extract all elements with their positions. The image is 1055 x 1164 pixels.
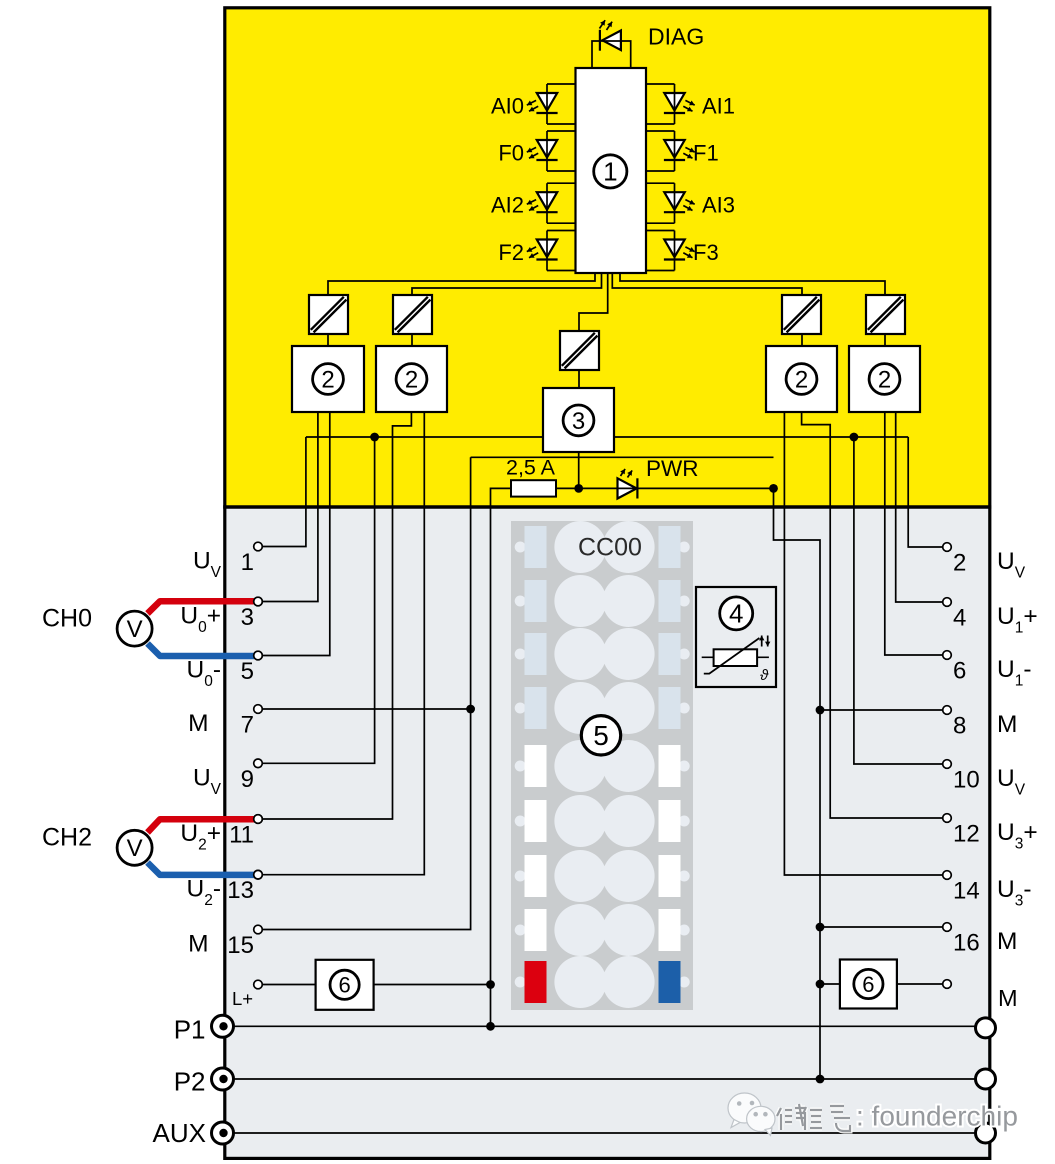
svg-text:UV: UV: [193, 764, 222, 798]
svg-text:M: M: [998, 985, 1018, 1011]
terminal 12 (right): [943, 814, 952, 823]
CH2 blue wire to terminal 13: [148, 863, 255, 875]
CH0 blue wire to terminal 5: [148, 644, 255, 657]
thermistor symbol in box 4: [702, 656, 714, 658]
rail right of box3 (y=437): [614, 436, 908, 438]
junction dot rail/terminal 9: [370, 433, 379, 442]
callout circle 1: [594, 155, 627, 188]
svg-text:UV: UV: [997, 765, 1026, 799]
wire terminal 8: [820, 709, 943, 711]
terminal 15 (left): [254, 925, 263, 934]
svg-text:13: 13: [227, 877, 254, 904]
svg-text:P2: P2: [174, 1067, 206, 1097]
rail P2: [225, 1078, 985, 1080]
svg-text:15: 15: [227, 932, 254, 959]
LED F1: [664, 140, 684, 158]
wire terminal 13 vertical: [262, 412, 424, 875]
rail above fuse (y=457.3): [471, 456, 774, 458]
terminal 11 circle: [254, 815, 263, 824]
terminal 10 (right): [943, 760, 952, 769]
wire fuse to PWR LED: [556, 487, 618, 489]
svg-text:U1+: U1+: [997, 603, 1038, 637]
P1 outfeed bump (right): [976, 1018, 996, 1038]
terminal 9 (left): [254, 759, 263, 768]
svg-text:2: 2: [953, 550, 966, 577]
svg-text:AI1: AI1: [702, 94, 735, 119]
svg-text:2: 2: [405, 367, 418, 394]
svg-text:CH2: CH2: [42, 824, 92, 852]
terminal 11 (left): [254, 815, 263, 824]
P2 outfeed bump (right): [976, 1069, 996, 1089]
svg-text:2: 2: [878, 367, 891, 394]
connector block callout circle 5: [581, 716, 620, 755]
wire terminal 1 vertical: [262, 437, 306, 547]
connector 5 contact pair row 5: [554, 740, 606, 792]
svg-text:M: M: [188, 710, 208, 737]
LED F3: [664, 240, 684, 258]
connector 5 contact pair row 1: [554, 521, 606, 573]
supply filter box 6 (right): [840, 960, 897, 1009]
svg-text:3: 3: [241, 604, 254, 631]
terminal 8 (right): [943, 706, 952, 715]
connector 5 contact pair row 9: [554, 956, 606, 1008]
svg-text:12: 12: [953, 821, 980, 848]
svg-text:8: 8: [953, 713, 966, 740]
wire box6 right to terminal M: [897, 983, 943, 985]
terminal 5 circle: [254, 651, 263, 660]
wire terminal 12 vertical with jog: [802, 412, 943, 818]
svg-text:6: 6: [953, 658, 966, 685]
svg-text:M: M: [997, 928, 1017, 955]
svg-text:L+: L+: [232, 988, 253, 1009]
AUX outfeed bump (right): [976, 1123, 996, 1143]
wire terminal 11 vertical with jog: [262, 412, 411, 819]
wire box1 to barrier sq3 (middle): [579, 273, 608, 331]
terminal L+: [262, 984, 315, 986]
svg-text:7: 7: [241, 712, 254, 739]
CH2 red wire to terminal 11: [148, 819, 255, 832]
terminal 6 (right): [943, 651, 952, 660]
svg-text:CC00: CC00: [578, 534, 642, 562]
svg-text:1: 1: [603, 157, 617, 187]
isolation barrier sq2: [393, 295, 432, 334]
voltmeter V CH0: [117, 611, 152, 646]
svg-text:UV: UV: [193, 548, 222, 582]
connector block 5 body (CC00 front connector): [511, 521, 693, 1010]
logic box 3: [543, 388, 614, 452]
svg-text:9: 9: [241, 766, 254, 793]
wire terminal 2 vertical: [908, 437, 943, 547]
wire terminal 10 vertical: [854, 437, 943, 764]
svg-text:F0: F0: [498, 141, 524, 166]
isolation barrier sq4: [782, 295, 821, 334]
svg-text:CH0: CH0: [42, 605, 92, 633]
wire sq3 to box3: [578, 370, 580, 388]
wire box1 to barrier sq2 (lower-left rail): [412, 273, 602, 295]
rail left of box3 (y=437): [306, 436, 543, 438]
terminal 13 circle: [254, 870, 263, 879]
svg-text:U2-: U2-: [187, 876, 222, 910]
LED PWR: [618, 478, 637, 498]
wire sq1 to box2a: [327, 334, 329, 346]
svg-text:14: 14: [953, 878, 980, 905]
wire terminal 5 vertical: [262, 412, 330, 656]
svg-text:2,5 A: 2,5 A: [506, 456, 556, 480]
svg-text:V: V: [127, 616, 143, 643]
wire box1 to barrier sq4 (lower-right rail): [612, 273, 802, 295]
svg-text:M: M: [188, 931, 208, 958]
svg-text:F1: F1: [693, 141, 719, 166]
svg-text:V: V: [127, 835, 143, 862]
watermark text: [777, 1104, 850, 1131]
svg-text:6: 6: [862, 972, 874, 997]
supply filter box 6 (left): [316, 960, 374, 1010]
terminal 3 (left): [254, 597, 263, 606]
svg-text:ϑ: ϑ: [760, 667, 769, 684]
AUX infeed bump: [212, 1122, 234, 1144]
LED AI2: [537, 192, 557, 210]
svg-text:AUX: AUX: [153, 1118, 206, 1148]
diagram border frame: [225, 8, 990, 1159]
junction dot terminal 8: [816, 706, 825, 715]
wire sq2 to box2b: [411, 334, 413, 346]
svg-text:M: M: [997, 711, 1017, 738]
svg-text:2: 2: [795, 367, 808, 394]
junction dot terminal 7 / M rail: [466, 705, 475, 714]
terminal 14 (right): [943, 871, 952, 880]
voltmeter V CH2: [117, 830, 152, 865]
P2 infeed bump: [212, 1068, 234, 1090]
wire box1 to barrier sq5 (upper-right rail): [620, 273, 885, 295]
terminal 3 circle: [254, 597, 263, 606]
wire sq4 to box2c: [801, 334, 803, 346]
svg-text:3: 3: [572, 408, 585, 435]
watermark wechat icon: [728, 1093, 775, 1136]
terminal M (right bottom): [820, 983, 840, 985]
rail AUX: [225, 1132, 985, 1134]
terminal 16 (right): [943, 923, 952, 932]
junction dot terminal 16: [816, 923, 825, 932]
svg-text:2: 2: [321, 367, 334, 394]
wire box3 bottom to fuse line: [578, 452, 580, 488]
connector 5 contact pair row 3: [554, 628, 606, 680]
wire PWR to M bus vertical (right): [774, 488, 821, 1079]
LED AI1: [664, 93, 684, 111]
connector 5 contact pair row 6: [554, 795, 606, 847]
svg-text:U2+: U2+: [180, 820, 221, 854]
junction dot rail/terminal 10: [850, 433, 859, 442]
wire box1 to barrier sq1 (upper-left rail): [328, 273, 595, 295]
wire fuse feed vertical (to L+/P1): [491, 488, 512, 1026]
svg-text:F2: F2: [498, 240, 524, 265]
svg-text:U0-: U0-: [187, 657, 222, 691]
wire terminal 7: [262, 708, 470, 710]
svg-text:5: 5: [241, 658, 254, 685]
wire terminal 4 vertical: [896, 412, 943, 602]
terminal 5 (left): [254, 651, 263, 660]
svg-text:PWR: PWR: [646, 456, 699, 481]
wire PWR LED to right branch: [637, 487, 773, 489]
svg-text:UV: UV: [997, 548, 1026, 582]
wire M rail terminals 7/15 vertical: [262, 457, 470, 929]
wire sq5 to box2d: [884, 334, 886, 346]
ADC box 2 (channel 3): [849, 346, 920, 412]
svg-text:U3+: U3+: [997, 819, 1038, 853]
junction dot box3/fuse line: [574, 484, 583, 493]
svg-text:5: 5: [593, 720, 609, 751]
wire terminal 3 vertical: [262, 412, 318, 602]
compensation box 4: [696, 587, 776, 687]
LED AI3: [664, 192, 684, 210]
terminal 2 (right): [943, 543, 952, 552]
controller box U1: [576, 68, 647, 273]
isolation barrier sq5: [866, 295, 905, 334]
svg-text:: founderchip: : founderchip: [856, 1101, 1018, 1132]
svg-text:11: 11: [229, 822, 254, 849]
terminal 7 (left): [254, 705, 263, 714]
LED AI0: [537, 93, 557, 111]
svg-text:4: 4: [729, 599, 743, 629]
isolation barrier sq1: [309, 295, 348, 334]
terminal 1 (left): [254, 542, 263, 551]
ADC box 2 (channel 1): [376, 346, 447, 412]
wire terminal 16: [820, 926, 943, 928]
LED DIAG: [602, 31, 621, 51]
CH0 red wire to terminal 3: [148, 601, 255, 613]
svg-text:6: 6: [338, 973, 350, 998]
svg-text:10: 10: [953, 767, 980, 794]
wire terminal 9 vertical: [262, 437, 374, 763]
junction dot M bus: [816, 980, 825, 989]
ADC box 2 (channel 0): [292, 346, 364, 412]
rail P1: [225, 1025, 985, 1027]
svg-text:U3-: U3-: [997, 876, 1032, 910]
P1 infeed bump: [212, 1015, 234, 1037]
isolation barrier sq3: [560, 331, 599, 370]
divider electronics/terminal area: [223, 505, 991, 508]
svg-text:U1-: U1-: [997, 656, 1032, 690]
svg-text:1: 1: [241, 549, 254, 576]
svg-text:AI0: AI0: [491, 94, 524, 119]
wire terminal 6 vertical: [885, 412, 943, 655]
svg-text:F3: F3: [693, 240, 719, 265]
svg-text:4: 4: [953, 605, 966, 632]
junction dot P1/fuse feed: [486, 1022, 495, 1031]
ADC box 2 (channel 2): [766, 346, 837, 412]
LED F2: [537, 240, 557, 258]
junction dot P2/M bus: [816, 1075, 825, 1084]
svg-text:AI2: AI2: [491, 193, 524, 218]
svg-text:AI3: AI3: [702, 193, 735, 218]
wire box6 left to L+ bus: [374, 984, 491, 986]
connector 5 contact pair row 2: [554, 575, 606, 627]
terminal 13 (left): [254, 870, 263, 879]
terminal 4 (right): [943, 598, 952, 607]
connector 5 contact pair row 7: [554, 850, 606, 902]
connector 5 contact pair row 8: [554, 904, 606, 956]
svg-text:DIAG: DIAG: [648, 24, 704, 50]
svg-text:P1: P1: [174, 1015, 206, 1045]
module electronics area (yellow): [226, 9, 989, 507]
junction dot PWR right: [769, 484, 778, 493]
wire DIAG loop: [592, 41, 631, 68]
terminal area (gray): [226, 507, 989, 1157]
LED F0: [537, 140, 557, 158]
wire terminal 14 vertical: [784, 412, 943, 875]
fuse 2,5 A: [511, 480, 556, 496]
connector 5 contact pair row 4: [554, 682, 606, 734]
svg-text:16: 16: [953, 930, 980, 957]
svg-text:U0+: U0+: [180, 603, 221, 637]
junction dot L+ bus: [486, 980, 495, 989]
